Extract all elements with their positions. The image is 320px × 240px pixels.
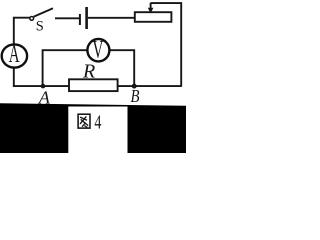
caption glyph 图 (drawn) [78,114,90,128]
battery: long plate (positive) [85,7,88,29]
node A junction dot [41,84,46,89]
voltmeter V1 body [87,39,109,61]
battery: short plate (negative) [79,14,81,25]
wire: battery to rheostat [88,17,135,19]
switch S blade [34,8,53,17]
node B junction dot [132,84,137,89]
wire: bottom horizontal A-B rail [13,85,181,87]
wire: right vertical from slider down to bottom-right corner [151,3,182,87]
wire: switch to battery [55,17,79,19]
rheostat slider arrowhead [148,8,154,14]
wire: voltmeter loop right [110,50,135,86]
wire: left vertical, top-left corner to ammeter [14,18,30,45]
wire: voltmeter loop left [43,50,88,86]
svg-text:4: 4 [94,111,101,133]
caption white box [68,107,127,154]
resistor R body [69,79,118,91]
svg-text:R: R [82,61,95,83]
scan background black band [0,103,186,153]
svg-text:A: A [9,41,20,68]
rheostat body [135,12,172,22]
switch S pivot [30,17,34,21]
svg-text:S: S [36,19,44,35]
ammeter A1 body [2,44,27,67]
svg-text:B: B [131,86,140,107]
rheostat slider arrow stem [150,3,152,9]
wire: left vertical below ammeter to bottom-left corner [13,67,15,86]
